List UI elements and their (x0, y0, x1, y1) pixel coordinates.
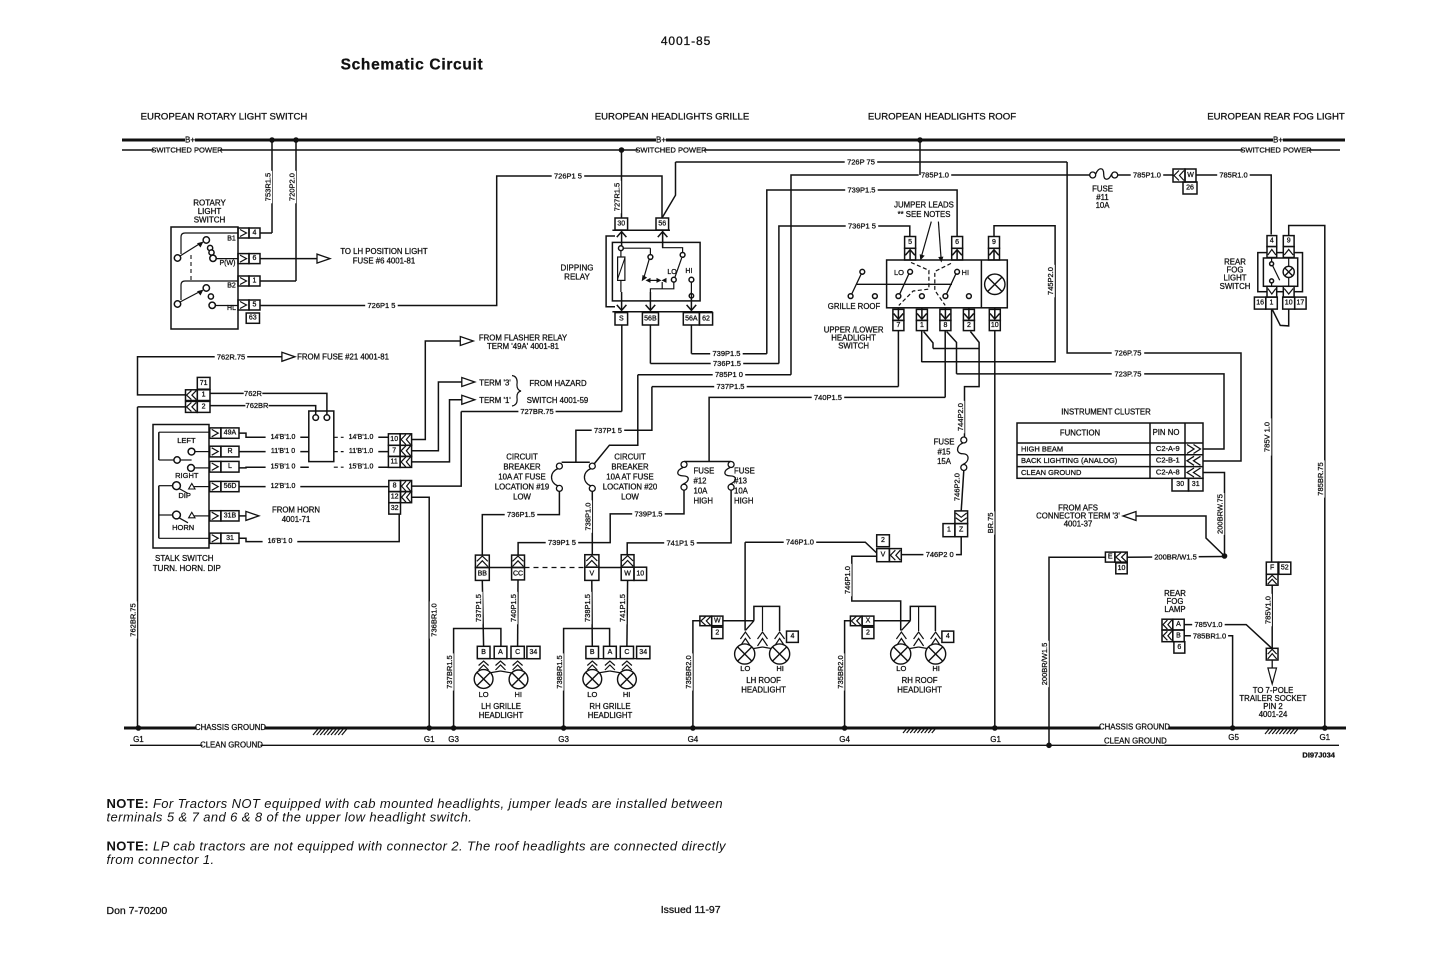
wire X connector to lamp (874, 620, 910, 622)
svg-text:11'B'1.0: 11'B'1.0 (349, 448, 373, 455)
svg-text:1: 1 (253, 278, 257, 285)
bus wire 785P1 0 (638, 374, 791, 376)
svg-text:HI: HI (623, 690, 631, 699)
svg-text:32: 32 (391, 505, 399, 512)
svg-text:from connector 1.: from connector 1. (107, 852, 215, 867)
rear fog switch contact wire (1271, 258, 1273, 262)
svg-text:785R1.0: 785R1.0 (1219, 171, 1247, 180)
svg-text:LO: LO (740, 664, 750, 673)
rear fog switch pin box 16 (1254, 297, 1265, 309)
stalk internal wire to 49A (159, 431, 210, 433)
connector W/2 LH roof ground (700, 616, 712, 626)
jumper lead dashed right (935, 263, 951, 305)
brace for hazard switch labels (512, 376, 521, 407)
selector wire into switch (857, 283, 952, 285)
svg-text:735BR2.0: 735BR2.0 (836, 655, 845, 688)
wire label 735BR2.0 RH (836, 653, 844, 690)
svg-text:W: W (714, 617, 721, 624)
svg-text:LO: LO (479, 690, 489, 699)
switched power rail (122, 149, 1340, 151)
wire pin 10 to ground G1 BR.75 (994, 331, 996, 728)
svg-text:A: A (608, 649, 613, 656)
wire breaker 20 output 738P1.0 to V (591, 491, 593, 555)
relay HI contact (689, 277, 694, 282)
wire 727BR.75 to dipping relay S (461, 411, 622, 413)
svg-text:10A: 10A (1096, 201, 1111, 210)
butt connector to trailer socket (1266, 648, 1278, 660)
stalk HORN switch (159, 514, 173, 516)
wire relay S to 727BR.75 (621, 325, 623, 412)
label CLEAN GROUND left (203, 741, 261, 750)
wire from connector 12 to ground G1 (412, 497, 430, 728)
svg-text:V: V (881, 552, 886, 559)
svg-text:NOTE: For Tractors NOT equippe: NOTE: For Tractors NOT equipped with cab… (107, 796, 724, 811)
svg-text:4: 4 (253, 230, 257, 237)
lamp terminal B RH (586, 646, 599, 658)
svg-text:SWITCHED POWER: SWITCHED POWER (635, 146, 707, 155)
svg-text:8: 8 (393, 483, 397, 490)
stalk pin 56D connector (210, 481, 221, 491)
relay up arrow to 30 (621, 232, 623, 250)
svg-text:CIRCUIT: CIRCUIT (614, 453, 646, 462)
rotary switch pin B1/4 connector (238, 228, 249, 238)
switch internal lamp (985, 274, 1005, 294)
svg-text:34: 34 (530, 649, 538, 656)
rear fog switch inner body (1263, 258, 1297, 286)
wire breaker 19 output 736P1.5 to BB (482, 491, 559, 555)
svg-text:FUSE: FUSE (734, 467, 755, 476)
svg-text:C2-A-9: C2-A-9 (1156, 444, 1180, 453)
svg-text:746P2.0: 746P2.0 (952, 473, 961, 501)
bus wire 736P1.5 (650, 363, 779, 365)
wire label 762R (244, 389, 263, 397)
fuse #13 (728, 462, 734, 468)
ground hatch marks right (1265, 728, 1270, 734)
switch pin box 5 (905, 237, 916, 249)
wire 785R1.0 W26 to rear fog switch pin 4 (1196, 175, 1271, 235)
svg-text:6: 6 (955, 239, 959, 246)
cluster terminal box 30 (1172, 478, 1189, 491)
relay LO contact (671, 277, 676, 282)
svg-text:9: 9 (992, 239, 996, 246)
cluster terminal box 31 (1189, 478, 1204, 491)
relay down arrow to 56A (690, 298, 692, 310)
svg-text:DIP: DIP (178, 491, 191, 500)
stalk internal rail upper (158, 432, 160, 460)
svg-text:34: 34 (639, 649, 647, 656)
svg-text:LO: LO (896, 664, 906, 673)
wire pin 7 down to 737P1.5 (897, 331, 899, 387)
rotary switch terminal box 63 (246, 313, 259, 323)
svg-text:740P1.5: 740P1.5 (814, 393, 842, 402)
svg-text:753R1.5: 753R1.5 (264, 173, 273, 201)
wire label 200BR/W1.5 vertical (1041, 641, 1049, 688)
lamp chevrons RH grille (586, 658, 650, 660)
svg-text:785P1.0: 785P1.0 (921, 171, 949, 180)
wire pin 1 down to F connector 785V1.0 (1271, 309, 1273, 562)
fuse #12 (681, 462, 687, 468)
svg-text:4001-24: 4001-24 (1259, 710, 1288, 719)
svg-text:10A AT FUSE: 10A AT FUSE (606, 473, 653, 482)
svg-text:CHASSIS GROUND: CHASSIS GROUND (195, 723, 266, 732)
junction on B+ at x=296 (293, 137, 299, 143)
svg-text:736P1 5: 736P1 5 (848, 222, 876, 231)
svg-text:LO: LO (587, 690, 597, 699)
svg-text:HIGH: HIGH (694, 497, 714, 506)
lamp terminal 34 RH (637, 646, 650, 658)
svg-text:4: 4 (790, 633, 794, 640)
fuse #15 (961, 437, 967, 443)
connector X/2 RH roof ground (850, 616, 862, 626)
svg-text:F: F (1270, 565, 1274, 572)
wire 738P1.5 V to lamp B (591, 580, 594, 646)
svg-text:B1: B1 (227, 236, 236, 243)
svg-text:** SEE NOTES: ** SEE NOTES (898, 210, 951, 219)
svg-text:CLEAN GROUND: CLEAN GROUND (200, 740, 263, 749)
svg-text:G4: G4 (688, 735, 699, 744)
connector BB (475, 555, 489, 567)
svg-text:HIGH BEAM: HIGH BEAM (1021, 444, 1063, 453)
connector F/52 (1266, 562, 1278, 574)
lamp LO LH grille (474, 670, 493, 689)
rear fog switch chevron cell pin 10 down (1283, 286, 1294, 297)
jumper lead dashed left (899, 263, 929, 306)
stalk internal rail lower (158, 486, 160, 539)
RH roof tent wires (901, 646, 918, 650)
stalk DIP switch (159, 485, 173, 487)
svg-text:W: W (1187, 172, 1194, 179)
svg-text:1: 1 (202, 392, 206, 399)
svg-text:11'B'1 0: 11'B'1 0 (271, 448, 295, 455)
svg-text:762BR: 762BR (246, 401, 270, 410)
stalk internal wire to 31 (159, 537, 210, 539)
svg-text:DIPPING: DIPPING (561, 264, 594, 273)
svg-text:TO LH POSITION LIGHT: TO LH POSITION LIGHT (340, 247, 428, 256)
svg-text:C2-A-8: C2-A-8 (1156, 468, 1180, 477)
svg-text:Z: Z (959, 527, 964, 534)
rotary switch pin B2/1 connector (238, 276, 249, 286)
svg-text:16'B'1 0: 16'B'1 0 (268, 538, 293, 545)
rear fog switch contacts (1270, 262, 1274, 266)
LH roof bracket wire (754, 606, 780, 631)
flasher unit box (309, 411, 334, 462)
svg-text:200BR/W1.5: 200BR/W1.5 (1040, 643, 1049, 686)
svg-text:LO: LO (894, 268, 904, 277)
lamp terminal A RH (604, 646, 617, 658)
wire label 746P1.0 RH (843, 564, 851, 597)
svg-text:746P1.0: 746P1.0 (843, 566, 852, 594)
wire 14B1.0 row from 49A (239, 433, 309, 437)
svg-text:1: 1 (1270, 300, 1274, 307)
connector E/10 (1105, 552, 1115, 562)
svg-text:FROM HORN: FROM HORN (272, 506, 320, 515)
svg-text:1: 1 (920, 322, 924, 329)
svg-text:31: 31 (226, 535, 234, 542)
svg-text:LOW: LOW (513, 493, 531, 502)
svg-text:738BR1.5: 738BR1.5 (555, 655, 564, 688)
connector 2/V roof feed (877, 535, 890, 547)
wire 753R1.5 from B+ to pin 4 (271, 140, 273, 233)
lamp HI LH grille (509, 670, 528, 689)
net label B+ middle (656, 136, 666, 145)
relay top strip (612, 229, 670, 231)
ground dot G1 785BR.75 (1322, 725, 1328, 731)
svg-text:HI: HI (514, 690, 522, 699)
LH roof diagonal jog (745, 621, 754, 631)
svg-text:726P1 5: 726P1 5 (368, 301, 396, 310)
trailer socket arrow (1271, 660, 1273, 668)
svg-text:71: 71 (200, 380, 208, 387)
svg-text:LEFT: LEFT (177, 436, 196, 445)
svg-text:SWITCHED POWER: SWITCHED POWER (151, 146, 223, 155)
bus wire 785P1 0 middle (592, 375, 638, 466)
switch lower contact 7 (896, 294, 901, 299)
stalk pin L connector (210, 461, 221, 472)
svg-text:TERM '3': TERM '3' (479, 379, 511, 388)
wire relay 56A to 739P1.5 (690, 325, 692, 354)
RH roof terminal 4 (942, 631, 954, 642)
svg-text:49A: 49A (224, 430, 237, 437)
wire connector10 to flasher relay arrow (412, 341, 461, 440)
stalk pin 31 connector (210, 533, 221, 543)
connector terminal 7 with arrows (388, 445, 400, 456)
ground dot G1 connector 12 (426, 725, 432, 731)
svg-text:STALK SWITCH: STALK SWITCH (155, 554, 214, 563)
svg-text:746P2 0: 746P2 0 (926, 550, 954, 559)
bus wire 739P1.5 upper (767, 190, 957, 354)
svg-text:744P2.0: 744P2.0 (956, 403, 965, 431)
wire label 746P2.0 (953, 471, 961, 504)
instrument cluster table (1017, 423, 1203, 478)
relay LO arm (675, 258, 682, 277)
svg-text:HEADLIGHT: HEADLIGHT (741, 685, 786, 694)
rotary switch pin HL/5 connector (238, 300, 249, 310)
off-page arrow FROM FUSE #21 (282, 352, 295, 361)
lamp tent wires LH grille (484, 670, 501, 673)
wire label BR.75 (986, 511, 994, 534)
svg-text:INSTRUMENT CLUSTER: INSTRUMENT CLUSTER (1061, 408, 1151, 417)
junction on switched power (619, 147, 625, 153)
rotary switch contact circle to pin 5 (209, 302, 215, 308)
svg-text:G5: G5 (1228, 733, 1239, 742)
bus wire 736P1 5 upper (779, 226, 910, 364)
svg-text:739P1.5: 739P1.5 (848, 186, 876, 195)
LH roof mid chevron feed (762, 606, 764, 631)
junction on B+ at x=272 (269, 137, 275, 143)
svg-text:736P1.5: 736P1.5 (713, 359, 741, 368)
relay wire HI to 56A (690, 282, 692, 293)
svg-text:10A AT FUSE: 10A AT FUSE (498, 473, 545, 482)
rotary switch internal arc upper (181, 233, 238, 254)
svg-text:10: 10 (1118, 565, 1126, 572)
svg-text:2: 2 (202, 403, 206, 410)
RH roof mid chevron feed (918, 606, 920, 631)
bus wire 740P1.5 from pin 8 to fuse bar (709, 397, 945, 461)
svg-text:EUROPEAN HEADLIGHTS GRILLE: EUROPEAN HEADLIGHTS GRILLE (595, 112, 750, 123)
wire label 762R.75 (215, 353, 248, 361)
switch contact LO (908, 269, 913, 274)
bus wire 723P.75 to high beam (957, 374, 1225, 449)
svg-text:200BR/W1.5: 200BR/W1.5 (1154, 553, 1197, 562)
svg-text:737P1.5: 737P1.5 (474, 594, 483, 622)
svg-text:B: B (481, 649, 486, 656)
connector terminal 10 with arrows (388, 434, 400, 446)
svg-text:#12: #12 (694, 477, 707, 486)
svg-text:G1: G1 (1319, 733, 1330, 742)
svg-text:RH ROOF: RH ROOF (902, 676, 938, 685)
svg-text:LOW: LOW (621, 493, 639, 502)
switch pin box 7 (893, 309, 904, 320)
svg-text:785BR1.0: 785BR1.0 (1193, 631, 1226, 640)
svg-text:SWITCH: SWITCH (1220, 282, 1251, 291)
svg-text:56B: 56B (644, 315, 657, 322)
switch pin box 9 (989, 237, 1000, 249)
ground dot G3 LH grille (451, 725, 457, 731)
svg-text:BREAKER: BREAKER (611, 463, 649, 472)
rear fog switch lower wires (1271, 283, 1273, 297)
switch lamp section divider (980, 260, 982, 308)
svg-text:720P2.0: 720P2.0 (288, 173, 297, 201)
svg-text:4: 4 (1270, 238, 1274, 245)
svg-text:14'B'1.0: 14'B'1.0 (349, 434, 374, 441)
svg-text:7: 7 (896, 322, 900, 329)
svg-text:785V 1.0: 785V 1.0 (1263, 422, 1272, 452)
label CLEAN GROUND right (1106, 737, 1164, 746)
fuse #11 (1090, 172, 1096, 178)
svg-text:V: V (589, 570, 594, 577)
svg-text:31: 31 (1192, 481, 1200, 488)
wire label 727R1.5 (613, 181, 621, 214)
stalk pin 49A connector (210, 428, 221, 438)
svg-text:C2-B-1: C2-B-1 (1156, 456, 1180, 465)
svg-text:762R.75: 762R.75 (217, 352, 245, 361)
svg-text:JUMPER LEADS: JUMPER LEADS (894, 201, 954, 210)
switch lower contact 1 (920, 294, 925, 299)
svg-text:736P1.5: 736P1.5 (507, 510, 535, 519)
rear fog switch pin box 17 (1295, 297, 1306, 309)
relay down arrow to S (621, 292, 623, 310)
relay bottom strip (612, 311, 712, 313)
stalk pin R connector (210, 446, 221, 457)
svg-text:11: 11 (391, 458, 398, 465)
wire 746P1.0 to LH roof lamp (744, 542, 746, 630)
svg-text:FROM FUSE #21 4001-81: FROM FUSE #21 4001-81 (297, 352, 389, 361)
wire fuse 13 output 741P1 5 to W (627, 490, 731, 555)
wire label 785V1.0 below F (1264, 594, 1272, 627)
relay inner body (612, 242, 700, 301)
wire 737P1.5 BB to lamp B (482, 580, 483, 646)
wire connector7 to TERM 3 arrow (412, 382, 462, 451)
switch lower contact 8 (943, 294, 948, 299)
svg-text:17: 17 (1297, 300, 1305, 307)
svg-text:HEADLIGHT: HEADLIGHT (588, 711, 633, 720)
clean ground junction dot (1046, 743, 1052, 749)
bus wire 737P1.5 from up/low switch pin 7 (652, 386, 899, 388)
svg-text:B: B (1176, 632, 1181, 639)
wire fuse 11 to W26 (1118, 174, 1173, 176)
svg-text:DI97J034: DI97J034 (1302, 751, 1335, 760)
connector terminal 12 with arrows (389, 492, 401, 503)
svg-text:10: 10 (991, 322, 999, 329)
svg-text:30: 30 (1176, 481, 1184, 488)
svg-text:B2: B2 (227, 283, 236, 290)
svg-text:LAMP: LAMP (1164, 605, 1185, 614)
svg-text:#13: #13 (734, 477, 747, 486)
wire pin4 to 753R1.5 (260, 232, 272, 234)
svg-text:G1: G1 (424, 735, 435, 744)
stalk pin 31B connector (210, 511, 221, 521)
bus wire 726P 75 (676, 161, 1068, 163)
svg-text:CC: CC (513, 570, 523, 577)
junction on B+ at x=920 (917, 137, 923, 143)
relay wire 56 to upper contact (663, 230, 683, 252)
connector 71/1/2 terminal 71 (197, 377, 210, 389)
svg-text:10: 10 (1285, 300, 1293, 307)
svg-text:15'B'1.0: 15'B'1.0 (349, 464, 374, 471)
svg-text:15A: 15A (937, 457, 952, 466)
LH roof lamp chevrons (740, 632, 750, 646)
wire pin 9 to switch lamp 745P2.0 (922, 226, 1055, 362)
wire 11B1.0 row from R (239, 451, 309, 453)
jumper pointer arrow left (922, 222, 932, 256)
svg-text:#15: #15 (937, 448, 951, 457)
wire 746P1.0 diagonal into V (745, 542, 877, 553)
svg-text:56D: 56D (224, 483, 237, 490)
wire between breaker tops (562, 461, 590, 463)
wire label 726P1 5 upper (552, 172, 585, 180)
svg-text:EUROPEAN HEADLIGHTS ROOF: EUROPEAN HEADLIGHTS ROOF (868, 112, 1016, 123)
svg-text:723P.75: 723P.75 (1115, 369, 1142, 378)
svg-text:737BR1.5: 737BR1.5 (445, 655, 454, 688)
connector 71/1/2 terminal 2 with arrows (186, 401, 198, 412)
ground dot G1 BR.75 (992, 725, 998, 731)
svg-text:HEADLIGHT: HEADLIGHT (479, 711, 524, 720)
off-page arrow TERM 1 (462, 395, 475, 404)
connector 71/1/2 terminal 1 with arrows (186, 390, 198, 401)
off-page arrow FROM FLASHER RELAY (460, 337, 473, 346)
relay bowtie contact symbol (646, 278, 651, 283)
svg-text:726P.75: 726P.75 (1115, 349, 1142, 358)
svg-text:785V1.0: 785V1.0 (1195, 620, 1223, 629)
lamp LO RH roof (891, 644, 911, 664)
connector W/26 (1173, 169, 1185, 182)
svg-text:LH GRILLE: LH GRILLE (481, 702, 521, 711)
net label B+ right (1273, 136, 1283, 145)
ground dot G1 far left (136, 725, 142, 731)
svg-text:Issued 11-97: Issued 11-97 (661, 904, 721, 916)
junction dot 200BR/W (1222, 553, 1228, 559)
svg-text:1: 1 (947, 527, 951, 534)
relay wire LO to 56B (650, 282, 673, 292)
svg-text:10: 10 (390, 436, 398, 443)
svg-text:2: 2 (967, 322, 971, 329)
switch pin box 10 (989, 309, 1000, 320)
rotary light switch body (171, 227, 238, 329)
svg-text:A: A (498, 649, 503, 656)
svg-text:SWITCHED POWER: SWITCHED POWER (1240, 146, 1312, 155)
svg-text:8: 8 (943, 322, 947, 329)
svg-text:EUROPEAN ROTARY LIGHT SWITCH: EUROPEAN ROTARY LIGHT SWITCH (141, 112, 308, 123)
B+ power rail (122, 139, 1345, 142)
svg-text:63: 63 (249, 315, 257, 322)
wire 12B1.0 from 56D to connector 8 (239, 486, 389, 488)
wire 762BR.75 to ground G1 (137, 407, 139, 728)
switch pin box 2 (963, 309, 974, 320)
wire relay 56B to 736P1.5 (649, 325, 651, 364)
svg-text:HIGH: HIGH (734, 497, 754, 506)
wire 16B1.0 from 31 to connector 32 (239, 514, 399, 542)
stalk turn contact R (188, 448, 195, 455)
